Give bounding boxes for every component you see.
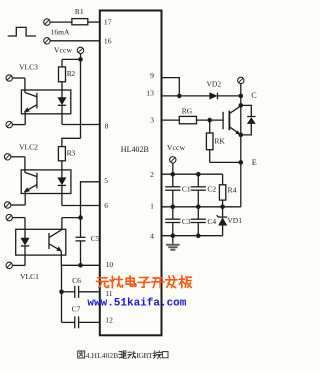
svg-text:RK: RK [214,136,225,145]
svg-text:C1: C1 [182,185,191,194]
svg-text:C: C [251,91,257,100]
svg-text:IGBT: IGBT [136,351,153,360]
svg-text:C6: C6 [72,276,81,285]
svg-text:R4: R4 [228,185,237,194]
svg-text:www.51kaifa.com: www.51kaifa.com [87,297,186,309]
svg-text:VLC2: VLC2 [19,143,38,152]
svg-text:C2: C2 [207,185,216,194]
svg-text:E: E [252,158,257,167]
svg-text:R2: R2 [67,69,76,78]
svg-text:9: 9 [150,71,154,80]
svg-text:C3: C3 [182,217,191,226]
svg-text:2: 2 [150,170,154,179]
svg-text:R1: R1 [75,7,84,16]
svg-text:C4: C4 [207,217,216,226]
svg-text:VLC1: VLC1 [20,272,39,281]
svg-text:R3: R3 [67,148,76,157]
svg-text:C7: C7 [72,305,81,314]
svg-text:3: 3 [150,115,154,124]
svg-text:Vccw: Vccw [54,45,73,54]
svg-text:VD2: VD2 [207,79,222,88]
svg-text:16mA: 16mA [51,28,70,37]
svg-text:10: 10 [106,260,114,269]
svg-text:HL402B: HL402B [121,145,149,154]
svg-text:VD1: VD1 [227,216,242,225]
svg-text:4: 4 [150,232,154,241]
svg-text:5: 5 [104,176,108,185]
svg-text:RG: RG [182,106,193,115]
svg-text:6: 6 [104,201,108,210]
svg-text:8: 8 [105,121,109,130]
svg-text:1: 1 [150,202,154,211]
svg-text:16: 16 [104,37,112,46]
svg-text:C5: C5 [91,234,100,243]
svg-text:13: 13 [146,88,154,97]
svg-text:4.HL402B: 4.HL402B [86,351,119,360]
svg-text:Vccw: Vccw [167,143,186,152]
svg-text:VLC3: VLC3 [19,62,38,71]
svg-text:12: 12 [105,315,113,324]
svg-text:17: 17 [104,18,112,27]
